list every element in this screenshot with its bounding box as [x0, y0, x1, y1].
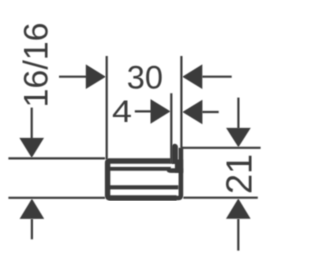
svg-text:16/16: 16/16	[17, 22, 55, 107]
svg-text:4: 4	[112, 94, 132, 129]
svg-text:21: 21	[219, 154, 260, 194]
svg-text:30: 30	[127, 60, 163, 96]
